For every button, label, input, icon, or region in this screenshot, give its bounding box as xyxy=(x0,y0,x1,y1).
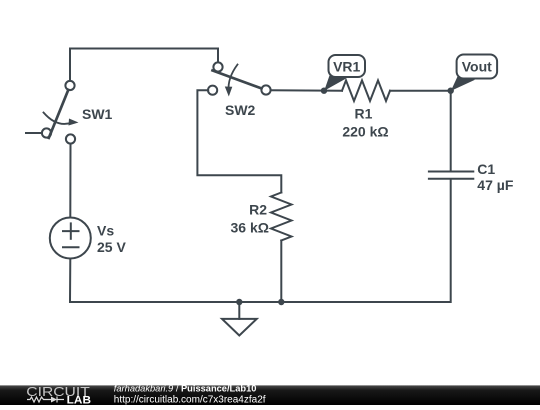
flag Vout xyxy=(451,55,497,91)
switch SW2 xyxy=(208,62,271,96)
capacitor C1 xyxy=(429,172,473,179)
footer text credits xyxy=(114,384,266,406)
node Vout junction xyxy=(448,88,454,94)
svg-text:25 V: 25 V xyxy=(97,239,126,255)
wire Vs to bottom rail xyxy=(69,259,71,303)
svg-text:R2: R2 xyxy=(249,202,267,218)
resistor R1 xyxy=(342,80,390,101)
svg-text:47 µF: 47 µF xyxy=(477,177,514,193)
wire SW2 left to R2 xyxy=(197,90,281,192)
voltage source Vs xyxy=(50,218,91,259)
svg-text:R1: R1 xyxy=(355,106,373,122)
wire R2 down to ground rail xyxy=(280,241,282,303)
label R2 value xyxy=(231,202,269,236)
wire SW1 left stub xyxy=(26,132,42,134)
label R1 value xyxy=(342,106,388,140)
node junction left of R1 xyxy=(321,88,327,94)
wire Vout node down to C1 xyxy=(450,91,452,171)
svg-text:36 kΩ: 36 kΩ xyxy=(231,220,269,236)
svg-text:LAB: LAB xyxy=(67,395,91,406)
flag VR1 xyxy=(324,55,365,91)
svg-text:VR1: VR1 xyxy=(333,59,360,75)
resistor R2 xyxy=(271,193,292,241)
svg-text:Vout: Vout xyxy=(462,59,492,75)
svg-text:220 kΩ: 220 kΩ xyxy=(342,124,388,140)
svg-text:http://circuitlab.com/c7x3rea4: http://circuitlab.com/c7x3rea4zfa2f xyxy=(114,395,266,405)
wire top from SW1 to SW2 xyxy=(70,49,218,81)
svg-text:SW1: SW1 xyxy=(82,106,113,122)
wire bottom rail xyxy=(70,301,282,303)
wire C1 down to bottom right corner xyxy=(282,179,451,302)
svg-text:SW2: SW2 xyxy=(225,102,256,118)
wire R1 to Vout node xyxy=(390,90,451,92)
ground xyxy=(222,302,257,336)
svg-text:farhadakbari.9 / Puissance/Lab: farhadakbari.9 / Puissance/Lab10 xyxy=(114,384,257,394)
label C1 value xyxy=(477,161,514,193)
svg-text:Vs: Vs xyxy=(97,223,114,239)
node ground junction xyxy=(236,299,242,305)
wire SW1 to Vs xyxy=(69,144,71,218)
label Vs value xyxy=(97,223,126,256)
node R2 bottom junction xyxy=(278,299,284,305)
wire SW2 right to R1 xyxy=(271,89,342,92)
logo CircuitLab xyxy=(26,385,91,407)
footer bar xyxy=(0,385,540,405)
switch SW1 xyxy=(42,81,79,144)
svg-text:C1: C1 xyxy=(477,161,495,177)
